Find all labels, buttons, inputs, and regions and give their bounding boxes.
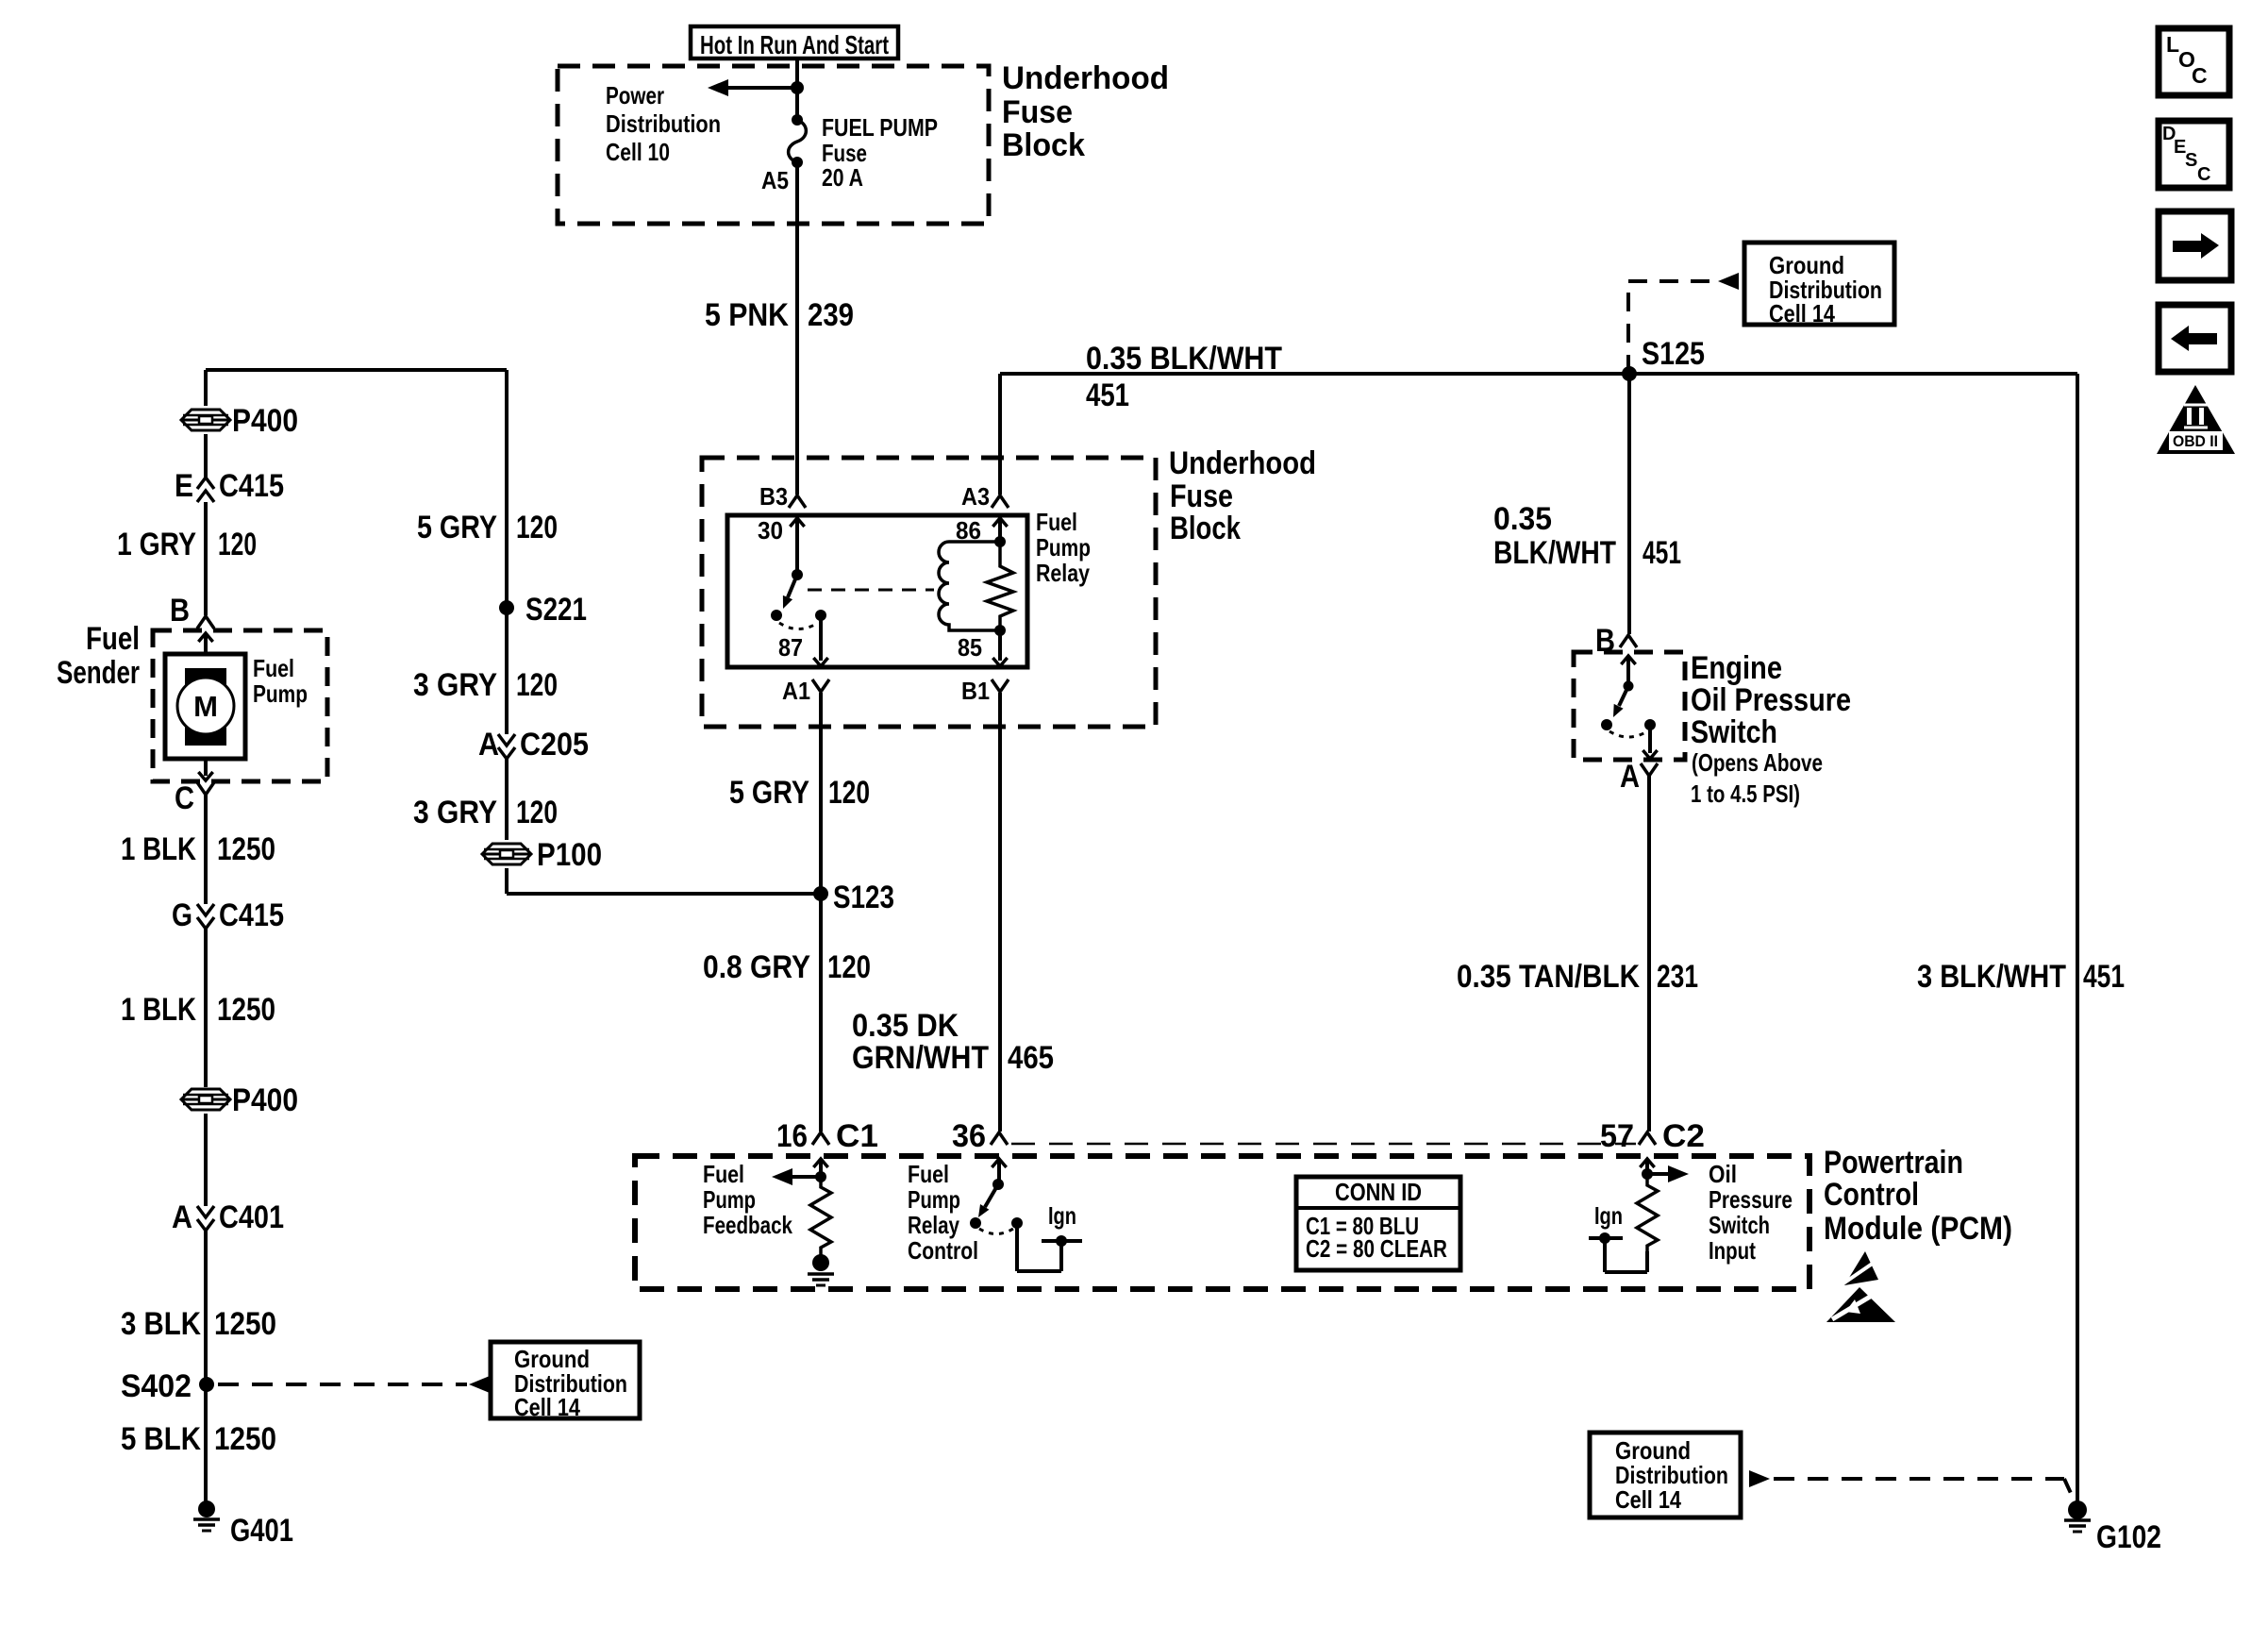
svg-text:Ign: Ign xyxy=(1048,1201,1076,1230)
wire P100 elbow to S123 xyxy=(507,868,821,894)
PCM pin 16 arrow xyxy=(813,1159,827,1177)
svg-text:G102: G102 xyxy=(2096,1519,2161,1555)
wire P400 to C415 xyxy=(204,434,208,478)
label 1 BLK 1250 (second) xyxy=(121,992,275,1028)
svg-text:Pump: Pump xyxy=(908,1185,960,1214)
wire S125 down to switch pin B xyxy=(1627,374,1631,634)
svg-text:Fuse: Fuse xyxy=(1170,478,1233,514)
svg-text:Cell 14: Cell 14 xyxy=(1615,1485,1681,1514)
splice S402 xyxy=(121,1368,214,1404)
svg-text:120: 120 xyxy=(516,667,558,703)
label 0.8 GRY 120 xyxy=(703,949,871,985)
fuel sender dashed box xyxy=(153,630,327,781)
wire 0.35 BLK/WHT 451 horizontal rail xyxy=(1000,372,2077,376)
fuse F (FUEL PUMP Fuse 20 A) xyxy=(789,114,807,168)
svg-text:S125: S125 xyxy=(1642,336,1705,372)
icon LOC box xyxy=(2159,28,2229,95)
label 0.35 TAN/BLK 231 xyxy=(1457,959,1698,995)
wire P400 to C401 xyxy=(204,1114,208,1206)
svg-text:E: E xyxy=(175,468,193,504)
svg-text:16: 16 xyxy=(776,1118,808,1154)
svg-text:0.35 BLK/WHT: 0.35 BLK/WHT xyxy=(1086,341,1282,377)
relay K (Fuel Pump Relay) box xyxy=(727,515,1027,667)
label 5 GRY 120 (column 2) xyxy=(417,510,558,545)
oil switch pivot xyxy=(1624,681,1634,692)
svg-text:Fuel: Fuel xyxy=(253,654,294,682)
pass-through grommet P100 xyxy=(482,837,602,873)
connector pin C of fuel sender xyxy=(175,780,214,816)
label (Opens Above 1 to 4.5 PSI) xyxy=(1691,748,1823,808)
ESD sensitive device symbols xyxy=(1826,1251,1895,1322)
svg-text:Block: Block xyxy=(1170,511,1241,546)
relay switch contacts xyxy=(771,610,826,621)
label Engine Oil Pressure Switch xyxy=(1691,650,1851,750)
svg-text:3 BLK: 3 BLK xyxy=(121,1306,201,1342)
connector B3 xyxy=(759,482,806,511)
wire from Hot box down to fuse xyxy=(795,59,799,120)
connector pin B of fuel sender xyxy=(170,593,214,629)
svg-text:P100: P100 xyxy=(537,837,602,873)
svg-text:(Opens Above: (Opens Above xyxy=(1692,748,1823,777)
label 0.35 BLK/WHT 451 (switch feed) xyxy=(1493,501,1681,571)
svg-text:P400: P400 xyxy=(232,1082,298,1118)
wire C to C415 (1 BLK 1250) xyxy=(204,795,208,904)
svg-text:1250: 1250 xyxy=(214,1306,276,1342)
svg-text:465: 465 xyxy=(1008,1040,1054,1076)
icon OBD II triangle xyxy=(2157,385,2235,454)
connector pin A of oil pressure switch xyxy=(1620,759,1658,795)
svg-text:FUEL PUMP: FUEL PUMP xyxy=(822,113,938,142)
svg-text:G401: G401 xyxy=(230,1513,293,1549)
dashed reference wire Ground Distribution to G102 xyxy=(1749,1470,2075,1501)
svg-text:OBD II: OBD II xyxy=(2173,432,2218,450)
svg-text:Engine: Engine xyxy=(1691,650,1782,686)
connector A of C205 xyxy=(478,727,589,763)
label 3 BLK/WHT 451 xyxy=(1917,959,2125,995)
relay switch arm xyxy=(783,575,797,609)
svg-text:3 GRY: 3 GRY xyxy=(413,667,497,703)
svg-text:5 GRY: 5 GRY xyxy=(729,775,809,811)
PCM fuel pump feedback arrow xyxy=(772,1168,826,1185)
PCM oil switch input resistor R2 xyxy=(1637,1174,1658,1251)
wire 3 BLK/WHT 451 right edge xyxy=(2076,374,2079,1502)
svg-text:Sender: Sender xyxy=(57,655,140,691)
relay pin 85 wire and arrow xyxy=(958,630,1008,666)
oil switch pin B arrow xyxy=(1621,656,1635,686)
connector A of C401 xyxy=(172,1199,284,1235)
label 5 PNK 239 xyxy=(705,297,854,333)
PCM relay control Ign feed xyxy=(1017,1223,1082,1271)
svg-text:A: A xyxy=(478,727,499,763)
svg-text:Cell 14: Cell 14 xyxy=(1769,299,1835,327)
svg-text:Fuel: Fuel xyxy=(703,1160,744,1188)
svg-text:120: 120 xyxy=(827,949,871,985)
relay pin 86 arrow xyxy=(956,516,1008,545)
svg-text:1 BLK: 1 BLK xyxy=(121,992,196,1028)
relay actuation dashed link xyxy=(808,589,934,592)
splice S221 xyxy=(499,592,587,628)
fuel pump arrow out xyxy=(198,759,212,780)
svg-text:B: B xyxy=(170,593,190,629)
connector A1 xyxy=(782,677,829,705)
svg-text:Ign: Ign xyxy=(1594,1201,1623,1230)
svg-text:451: 451 xyxy=(2083,959,2125,995)
wire fuse to relay pin B3 (5 PNK 239) xyxy=(795,162,799,495)
pass-through grommet P400 (upper) xyxy=(181,403,298,439)
svg-text:Distribution: Distribution xyxy=(606,109,721,138)
wire S221 to C205 (3 GRY 120) xyxy=(505,608,509,734)
svg-text:36: 36 xyxy=(952,1118,986,1154)
engine oil pressure switch SW dashed box xyxy=(1574,652,1685,760)
svg-text:5 GRY: 5 GRY xyxy=(417,510,497,545)
svg-text:3 BLK/WHT: 3 BLK/WHT xyxy=(1917,959,2066,995)
svg-text:Relay: Relay xyxy=(908,1211,959,1239)
svg-text:0.35: 0.35 xyxy=(1493,501,1552,537)
dashed reference wire S402 to Ground Distribution xyxy=(218,1376,490,1393)
svg-text:C401: C401 xyxy=(219,1199,284,1235)
thin dashed connector line 36 to 57 xyxy=(1011,1143,1636,1146)
svg-text:231: 231 xyxy=(1657,959,1698,995)
svg-text:Cell 10: Cell 10 xyxy=(606,138,670,166)
connector A3 xyxy=(961,482,1009,511)
wire C415 to fuel sender (1 GRY 120) xyxy=(204,502,208,615)
svg-text:Oil: Oil xyxy=(1709,1160,1737,1188)
svg-text:Oil Pressure: Oil Pressure xyxy=(1691,682,1851,718)
svg-text:87: 87 xyxy=(778,633,803,662)
svg-text:120: 120 xyxy=(828,775,870,811)
label Fuel Sender xyxy=(57,621,140,691)
node Ground Distribution Cell 14 (upper) box xyxy=(1744,243,1894,327)
svg-text:Underhood: Underhood xyxy=(1169,445,1316,481)
label 1 GRY 120 xyxy=(117,527,257,562)
svg-text:Hot In Run And Start: Hot In Run And Start xyxy=(700,30,889,59)
wire S402 to G401 (5 BLK 1250) xyxy=(204,1384,208,1502)
node Hot In Run And Start (power feed box) xyxy=(691,26,898,59)
label 3 GRY 120 (second) xyxy=(413,795,558,830)
connector pin 16 C1 xyxy=(776,1118,878,1154)
svg-text:Cell 14: Cell 14 xyxy=(514,1393,580,1421)
relay switch dotted throw arc xyxy=(779,623,818,629)
label Powertrain Control Module (PCM) xyxy=(1824,1145,2012,1247)
svg-text:Underhood: Underhood xyxy=(1002,60,1169,96)
connector E of C415 (upper) xyxy=(175,468,284,504)
svg-text:Pump: Pump xyxy=(703,1185,756,1214)
PCM pin 36 arrow xyxy=(992,1159,1006,1184)
svg-text:Pump: Pump xyxy=(1036,533,1091,562)
relay pin 87 wire and arrow xyxy=(778,615,828,666)
svg-text:Relay: Relay xyxy=(1036,559,1090,587)
icon DESC box xyxy=(2159,121,2229,188)
svg-text:A5: A5 xyxy=(761,166,789,194)
label 0.35 DK GRN/WHT 465 xyxy=(852,1008,1054,1076)
pass-through grommet P400 (lower) xyxy=(181,1082,298,1118)
svg-text:Input: Input xyxy=(1709,1236,1756,1265)
label Power Distribution Cell 10 xyxy=(606,81,721,166)
label 0.35 BLK/WHT 451 (rail) xyxy=(1086,341,1282,413)
label Fuel Pump Feedback xyxy=(703,1160,792,1239)
label 5 GRY 120 (relay output) xyxy=(729,775,870,811)
svg-text:5 PNK: 5 PNK xyxy=(705,297,789,333)
svg-text:C: C xyxy=(2197,164,2210,185)
splice S123 xyxy=(813,880,894,915)
svg-text:3 GRY: 3 GRY xyxy=(413,795,497,830)
oil switch pin A wire and arrow xyxy=(1643,725,1657,759)
svg-text:Control: Control xyxy=(1824,1177,1919,1213)
svg-text:C205: C205 xyxy=(520,727,589,763)
PCM pin 57 arrow xyxy=(1640,1159,1654,1174)
oil switch arm xyxy=(1613,686,1628,717)
connector G of C415 (lower) xyxy=(172,897,284,933)
svg-text:1 GRY: 1 GRY xyxy=(117,527,196,562)
svg-text:C2 = 80 CLEAR: C2 = 80 CLEAR xyxy=(1306,1234,1447,1263)
PCM feedback resistor R1 xyxy=(810,1177,831,1256)
connector pin 36 xyxy=(952,1118,1008,1154)
svg-text:Module (PCM): Module (PCM) xyxy=(1824,1211,2012,1247)
label Fuel Pump xyxy=(253,654,308,708)
ground G102 xyxy=(2064,1500,2161,1555)
svg-text:Switch: Switch xyxy=(1691,714,1777,750)
svg-text:85: 85 xyxy=(958,633,982,662)
svg-text:C415: C415 xyxy=(219,897,284,933)
wire relay B1 down to PCM pin 36 xyxy=(998,693,1002,1131)
oil switch dotted throw arc xyxy=(1609,731,1647,737)
label 3 GRY 120 xyxy=(413,667,558,703)
svg-text:BLK/WHT: BLK/WHT xyxy=(1493,535,1616,571)
svg-text:A3: A3 xyxy=(961,482,990,511)
svg-text:Block: Block xyxy=(1002,127,1085,163)
label Underhood Fuse Block (lower) xyxy=(1169,445,1316,546)
wire switch A to PCM pin 57 (0.35 TAN/BLK 231) xyxy=(1647,776,1651,1131)
svg-text:0.8 GRY: 0.8 GRY xyxy=(703,949,810,985)
relay coil shunt resistor xyxy=(987,542,1013,636)
label 3 BLK 1250 xyxy=(121,1306,276,1342)
svg-text:Fuel: Fuel xyxy=(86,621,140,657)
ground G401 xyxy=(193,1500,293,1549)
svg-text:Fuel: Fuel xyxy=(1036,508,1077,536)
label 1 BLK 1250 xyxy=(121,831,275,867)
svg-text:Pressure: Pressure xyxy=(1709,1185,1793,1214)
label 5 BLK 1250 xyxy=(121,1421,276,1457)
PCM oil pressure switch input arrow xyxy=(1642,1165,1689,1182)
svg-text:120: 120 xyxy=(218,527,257,562)
node Ground Distribution Cell 14 (lower) box xyxy=(1590,1433,1741,1517)
svg-text:S402: S402 xyxy=(121,1368,192,1404)
fuel pump arrow in xyxy=(198,633,212,656)
relay pin 30 arrow xyxy=(758,516,805,575)
svg-text:120: 120 xyxy=(516,510,558,545)
svg-text:C: C xyxy=(2192,63,2208,88)
node Ground Distribution Cell 14 (left) box xyxy=(491,1342,640,1421)
svg-text:Fuse: Fuse xyxy=(1002,94,1073,130)
svg-text:0.35 DK: 0.35 DK xyxy=(852,1008,959,1044)
svg-text:Switch: Switch xyxy=(1709,1211,1770,1239)
svg-text:C1: C1 xyxy=(836,1118,878,1154)
svg-text:120: 120 xyxy=(516,795,558,830)
PCM relay control switch xyxy=(970,1179,1023,1234)
svg-text:30: 30 xyxy=(758,516,783,545)
svg-text:57: 57 xyxy=(1600,1118,1634,1154)
fuel pump motor M xyxy=(165,654,245,759)
wire elbow down to connector A3 xyxy=(998,374,1002,495)
arrow to Power Distribution Cell 10 xyxy=(708,79,804,96)
underhood fuse block (lower) dashed outline xyxy=(702,458,1156,727)
svg-text:Pump: Pump xyxy=(253,679,308,708)
svg-text:451: 451 xyxy=(1086,377,1129,413)
svg-text:1 BLK: 1 BLK xyxy=(121,831,196,867)
label Ign (relay control) xyxy=(1048,1201,1076,1230)
CONN ID table xyxy=(1296,1177,1460,1270)
icon back arrow box xyxy=(2159,305,2231,372)
svg-text:20 A: 20 A xyxy=(822,163,863,192)
svg-text:S221: S221 xyxy=(525,592,587,628)
svg-text:Feedback: Feedback xyxy=(703,1211,792,1239)
svg-text:1250: 1250 xyxy=(217,831,275,867)
wire S123 to PCM pin 16 (0.8 GRY 120) xyxy=(819,894,823,1131)
svg-text:M: M xyxy=(193,690,218,723)
svg-text:P400: P400 xyxy=(232,403,298,439)
underhood fuse block (upper) dashed outline xyxy=(558,66,989,224)
svg-text:C: C xyxy=(175,780,194,816)
svg-text:B3: B3 xyxy=(759,482,788,511)
relay coil xyxy=(939,536,1006,630)
wire C415 to P400 (1 BLK 1250) xyxy=(204,929,208,1087)
svg-text:1 to 4.5 PSI): 1 to 4.5 PSI) xyxy=(1691,779,1800,808)
powertrain control module PCM dashed box xyxy=(635,1156,1809,1289)
pin A5 label xyxy=(761,166,789,194)
label Ign (oil switch) xyxy=(1594,1201,1623,1230)
wire C401 to S402 (3 BLK 1250) xyxy=(204,1231,208,1384)
connector pin 57 C2 xyxy=(1600,1118,1705,1154)
svg-text:C2: C2 xyxy=(1662,1118,1705,1154)
svg-text:5 BLK: 5 BLK xyxy=(121,1421,201,1457)
label Fuel Pump Relay xyxy=(1036,508,1091,587)
wire relay A1 down to S123 (5 GRY 120) xyxy=(819,693,823,894)
svg-text:S: S xyxy=(2185,150,2197,171)
svg-text:451: 451 xyxy=(1643,535,1681,571)
svg-text:0.35 TAN/BLK: 0.35 TAN/BLK xyxy=(1457,959,1640,995)
label Fuel Pump Relay Control xyxy=(908,1160,978,1265)
PCM oil switch Ign feed xyxy=(1589,1232,1647,1272)
svg-text:A1: A1 xyxy=(782,677,810,705)
svg-text:GRN/WHT: GRN/WHT xyxy=(852,1040,989,1076)
svg-text:A: A xyxy=(1620,759,1640,795)
label FUEL PUMP Fuse 20 A xyxy=(822,113,938,192)
wire top elbow run xyxy=(206,370,507,608)
label Underhood Fuse Block (upper) xyxy=(1002,60,1169,163)
svg-text:CONN ID: CONN ID xyxy=(1335,1178,1422,1206)
svg-text:B1: B1 xyxy=(961,677,990,705)
wire C205 to P100 (3 GRY 120) xyxy=(505,759,509,840)
label Oil Pressure Switch Input xyxy=(1709,1160,1793,1265)
connector pin B of oil pressure switch xyxy=(1595,623,1637,659)
connector B1 xyxy=(961,677,1009,705)
svg-text:S123: S123 xyxy=(833,880,894,915)
splice S125 xyxy=(1622,336,1705,381)
svg-text:Fuel: Fuel xyxy=(908,1160,949,1188)
icon forward arrow box xyxy=(2159,211,2231,280)
PCM internal ground xyxy=(808,1254,834,1285)
svg-text:239: 239 xyxy=(808,297,854,333)
svg-text:Powertrain: Powertrain xyxy=(1824,1145,1963,1181)
svg-text:C415: C415 xyxy=(219,468,284,504)
svg-text:Power: Power xyxy=(606,81,664,109)
svg-text:Control: Control xyxy=(908,1236,978,1265)
svg-text:A: A xyxy=(172,1199,192,1235)
relay switch common pivot xyxy=(792,569,803,580)
oil switch contacts xyxy=(1601,719,1656,730)
svg-text:G: G xyxy=(172,897,192,933)
svg-text:L: L xyxy=(2166,32,2179,57)
dashed reference wire S125 to Ground Distribution xyxy=(1628,273,1739,374)
svg-text:1250: 1250 xyxy=(217,992,275,1028)
svg-text:1250: 1250 xyxy=(214,1421,276,1457)
